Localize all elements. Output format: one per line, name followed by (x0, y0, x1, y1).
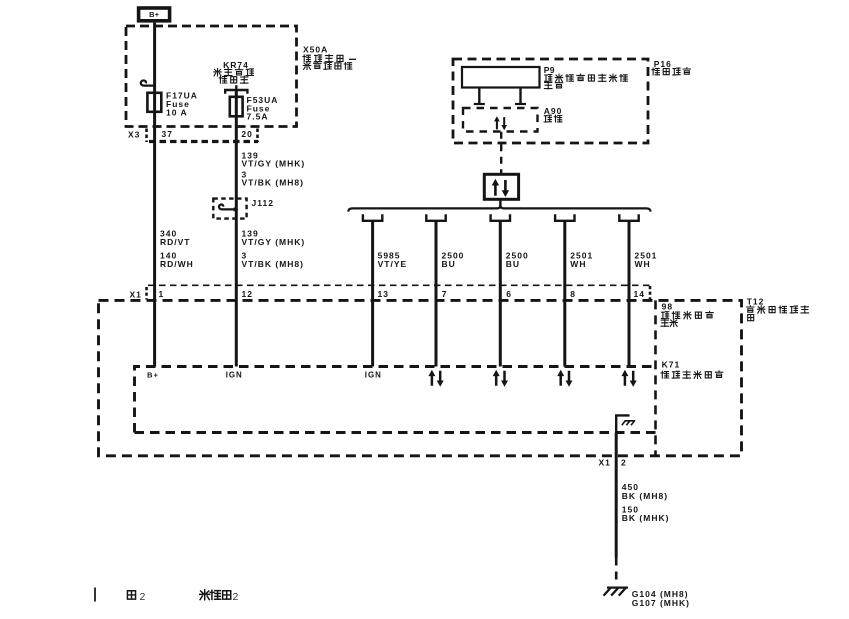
connector X1 label (130, 286, 651, 300)
svg-text:IGN: IGN (226, 371, 243, 380)
svg-text:X1: X1 (130, 290, 142, 300)
svg-text:VT/YE: VT/YE (378, 259, 408, 269)
wire label 139 VT/GY (MHK) upper (242, 150, 306, 168)
svg-text:WH: WH (635, 259, 651, 269)
svg-text:B+: B+ (149, 10, 160, 19)
wire label 2501 WH (pin8) (570, 251, 593, 269)
svg-text:KR74: KR74 (223, 60, 249, 70)
logic block A90 dashed box (463, 108, 538, 132)
wire from bus drop 3 (499, 221, 502, 367)
figure caption bar (94, 588, 96, 602)
label 98 控制电磁阀总成 (661, 302, 713, 327)
pin 7 of X1 (442, 289, 448, 299)
svg-text:1: 1 (159, 289, 165, 299)
svg-text:X1: X1 (599, 458, 611, 468)
pin function label B+ (147, 371, 159, 380)
pin 37 of X3 (162, 129, 173, 139)
svg-text:BU: BU (442, 259, 456, 269)
svg-text:B+: B+ (147, 371, 159, 380)
splice J112 (213, 198, 274, 219)
svg-text:VT/BK (MH8): VT/BK (MH8) (242, 178, 304, 188)
wire label 140 RD/WH (160, 251, 194, 269)
wire from interface box to bus (499, 199, 501, 205)
bus drop connector 5 (619, 214, 638, 221)
pin function label IGN (pin13) (365, 371, 382, 380)
pin 14 of X1 (634, 289, 645, 299)
transmission assembly T12 outer dashed box (99, 300, 742, 455)
instrument cluster P16 dashed enclosure (453, 59, 648, 143)
pin 8 of X1 (570, 289, 576, 299)
svg-text:X3: X3 (128, 130, 140, 140)
svg-text:98: 98 (662, 302, 673, 312)
svg-text:RD/WH: RD/WH (160, 259, 194, 269)
svg-text:VT/GY (MHK): VT/GY (MHK) (242, 159, 306, 169)
svg-text:T12: T12 (747, 297, 765, 307)
pin 20 of X3 (241, 129, 252, 139)
wire W1 battery feed vertical (153, 23, 156, 367)
bus drop connector 2 (426, 214, 445, 221)
wire W2 ignition feed vertical (235, 90, 238, 367)
svg-text:14: 14 (634, 289, 645, 299)
serial data dashed wire from A90 (500, 132, 502, 175)
svg-text:WH: WH (570, 259, 586, 269)
wire label 5985 VT/YE (378, 251, 408, 269)
svg-text:7: 7 (442, 289, 448, 299)
svg-text:J112: J112 (252, 198, 274, 208)
relay KR74 contact symbol (225, 85, 247, 94)
label P9 驾驶员信息中心显示器 (544, 65, 628, 89)
label A90 逻辑 (544, 106, 563, 122)
pin 1 of X1 (159, 289, 165, 299)
svg-text:P9: P9 (544, 65, 555, 75)
pin function label IGN (pin12) (226, 371, 243, 380)
wire from bus drop 5 (628, 221, 631, 367)
svg-text:BK (MHK): BK (MHK) (622, 513, 670, 523)
wire from bus drop 4 (563, 221, 566, 367)
ground wire W6 vertical (615, 433, 618, 585)
connector X1 row upper dashed line (148, 284, 650, 286)
wire label 150 BK (MHK) (622, 505, 670, 524)
power feed B+ terminal box (139, 8, 170, 21)
A90 serial data arrows (494, 116, 507, 130)
svg-text:8: 8 (570, 289, 576, 299)
svg-text:VT/BK (MH8): VT/BK (MH8) (242, 259, 304, 269)
svg-text:VT/GY (MHK): VT/GY (MHK) (242, 237, 306, 247)
pin 13 of X1 (378, 289, 389, 299)
wire label 139 VT/GY (MHK) lower (242, 229, 306, 247)
pin 6 of X1 (506, 289, 512, 299)
display P9 driver information center (462, 67, 540, 88)
relay KR74 点火运行 继电器 label (214, 60, 254, 83)
label T12 自动变速器总成 (747, 297, 809, 321)
svg-text:P16: P16 (654, 59, 672, 69)
label K71 传输控制模块 (661, 360, 723, 379)
svg-text:12: 12 (242, 289, 253, 299)
wire label 2501 WH (pin14) (635, 251, 658, 269)
wire from bus drop 2 (435, 221, 438, 367)
bus drop connector 4 (555, 214, 574, 221)
control module K71 dashed box (135, 367, 656, 433)
wire label 2500 BU (pin6) (506, 251, 529, 269)
svg-text:G107 (MHK): G107 (MHK) (632, 598, 690, 608)
serial data arrows pair 3 in K71 (557, 370, 572, 387)
svg-text:A90: A90 (544, 106, 563, 116)
fuse element curl on F17UA (141, 80, 156, 85)
svg-text:7.5A: 7.5A (247, 112, 269, 122)
serial data interface box (484, 174, 518, 199)
connector X3 row (128, 129, 258, 143)
svg-text:13: 13 (378, 289, 389, 299)
wire label 2500 BU (pin7) (442, 251, 465, 269)
svg-text:2: 2 (233, 591, 240, 603)
bus drop connector 1 (363, 214, 382, 221)
wire label 3 VT/BK (MH8) upper (242, 169, 304, 187)
bus drop connector 3 (491, 214, 510, 221)
serial data bus brace line (348, 205, 650, 212)
internal ground symbol in K71 (616, 415, 635, 432)
caption 图2 电路图2 (127, 590, 239, 603)
wire label 450 BK (MH8) (622, 482, 668, 501)
internal dashed divider (654, 300, 657, 455)
display legs (474, 88, 526, 105)
serial data arrows pair 1 in K71 (428, 370, 443, 387)
serial data arrows pair 4 in K71 (621, 370, 636, 387)
fuse F17UA 10A (147, 91, 198, 118)
svg-text:X50A: X50A (303, 45, 328, 55)
connector X1 pin 2 bottom (599, 458, 627, 468)
svg-text:2: 2 (140, 591, 147, 603)
wire label 3 VT/BK (MH8) lower (242, 251, 304, 269)
fuse block label X50A 保险丝盒 - 发动机室下 (303, 45, 356, 70)
label P16 组合仪表 (652, 59, 691, 75)
svg-text:20: 20 (241, 129, 252, 139)
svg-text:BU: BU (506, 259, 520, 269)
svg-text:2: 2 (621, 458, 627, 468)
pin 12 of X1 (242, 289, 253, 299)
fuse F53UA 7.5A (230, 95, 279, 121)
svg-text:37: 37 (162, 129, 173, 139)
svg-text:10 A: 10 A (166, 107, 188, 117)
fuse block X50A dashed enclosure (126, 26, 297, 127)
ground labels G104 (MH8) G107 (MHK) (632, 589, 690, 608)
wire from bus drop 1 (371, 221, 374, 367)
svg-text:BK (MH8): BK (MH8) (622, 491, 668, 501)
wire label 340 RD/VT (160, 229, 191, 247)
serial data arrows pair 2 in K71 (493, 370, 508, 387)
svg-text:6: 6 (506, 289, 512, 299)
chassis ground G104/G107 (604, 588, 628, 596)
svg-text:IGN: IGN (365, 371, 382, 380)
svg-text:K71: K71 (662, 360, 681, 370)
svg-text:RD/VT: RD/VT (160, 237, 191, 247)
